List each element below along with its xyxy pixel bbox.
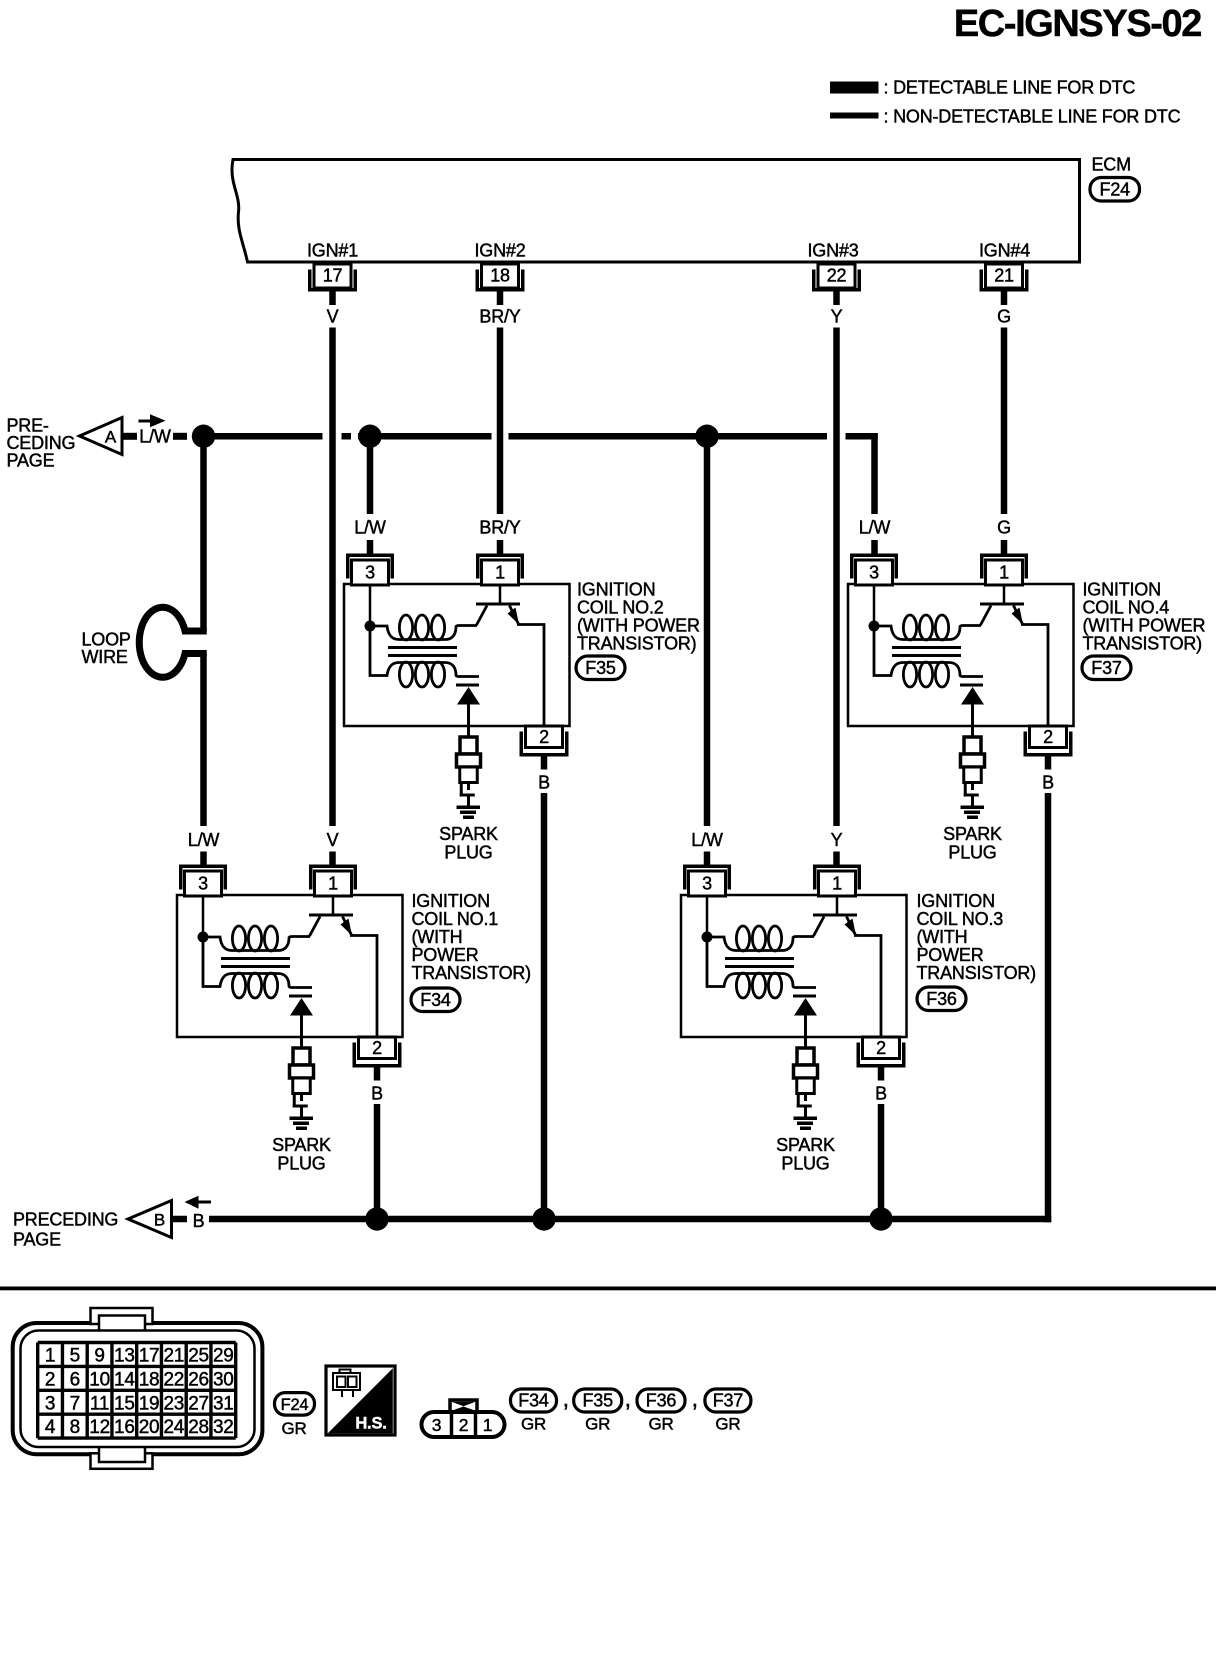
svg-text:PAGE: PAGE — [13, 1230, 61, 1250]
svg-text:3: 3 — [365, 563, 375, 583]
svg-text:B: B — [371, 1084, 383, 1104]
svg-text:(WITH: (WITH — [917, 927, 968, 947]
svg-text:1: 1 — [483, 1415, 493, 1435]
svg-text:L/W: L/W — [354, 518, 386, 538]
stub L/W coil2 — [367, 540, 374, 554]
connector F24 ref — [275, 1393, 315, 1416]
wire B from coil3 pin2 to bus — [878, 1104, 885, 1219]
stub from triangle B — [172, 1216, 188, 1223]
ECM connector ref F24 — [1090, 178, 1140, 202]
svg-text:16: 16 — [114, 1417, 135, 1438]
svg-text:IGNITION: IGNITION — [412, 891, 490, 911]
secondary winding — [203, 942, 312, 998]
ECM pin 18 connector — [476, 264, 525, 305]
L/W bus segment 2 (dash) — [342, 433, 352, 440]
svg-text:PLUG: PLUG — [277, 1154, 325, 1174]
svg-text:6: 6 — [70, 1369, 80, 1390]
svg-text:3: 3 — [45, 1393, 55, 1414]
svg-text:15: 15 — [114, 1393, 135, 1414]
junction dot B3 — [869, 1207, 892, 1230]
secondary winding — [370, 631, 479, 687]
svg-text:IGN#4: IGN#4 — [979, 241, 1030, 261]
svg-text:H.S.: H.S. — [355, 1415, 386, 1433]
svg-text:,: , — [625, 1386, 631, 1413]
page connector triangle A — [80, 418, 123, 455]
coil 2 internal wiring: pin3 lead and junction — [365, 584, 376, 632]
svg-text:PLUG: PLUG — [444, 843, 492, 863]
svg-text:5: 5 — [70, 1345, 80, 1366]
svg-text:12: 12 — [89, 1417, 110, 1438]
svg-text:POWER: POWER — [412, 945, 479, 965]
ECM pin 22 connector — [812, 264, 861, 305]
svg-text:B: B — [193, 1211, 205, 1231]
L/W bus segment 3 — [509, 433, 828, 440]
coil 3 power transistor — [813, 895, 881, 1037]
svg-text:GR: GR — [715, 1415, 740, 1434]
svg-text:: NON-DETECTABLE LINE FOR DTC: : NON-DETECTABLE LINE FOR DTC — [884, 107, 1181, 127]
direction arrow (right) — [139, 414, 166, 427]
svg-text:,: , — [692, 1386, 698, 1413]
coil 1 secondary spark gap — [289, 995, 313, 1038]
svg-text:24: 24 — [163, 1417, 184, 1438]
svg-text:18: 18 — [139, 1369, 160, 1390]
B ground bus — [209, 1216, 1051, 1223]
loop wire symbol — [139, 607, 207, 677]
stub L/W coil3 — [704, 852, 711, 865]
svg-text:29: 29 — [213, 1345, 234, 1366]
svg-text:2: 2 — [372, 1038, 382, 1058]
coil 3 pin 2 — [857, 1037, 906, 1081]
svg-text:7: 7 — [70, 1393, 80, 1414]
connector F37 ref — [705, 1389, 751, 1412]
wire L/W to coil no.2 pin 3 — [367, 440, 374, 514]
coil 4 pin 1 — [980, 554, 1028, 586]
svg-text:TRANSISTOR): TRANSISTOR) — [577, 634, 696, 654]
coil 3 internal wiring: pin3 lead and junction — [702, 895, 713, 943]
svg-text:9: 9 — [94, 1345, 104, 1366]
page connector triangle B — [128, 1201, 172, 1238]
svg-text:TRANSISTOR): TRANSISTOR) — [917, 963, 1036, 983]
stub after L/W — [173, 433, 187, 440]
spark plug 3 — [794, 1037, 818, 1130]
wire G from pin 21 down to coil no.4 — [1001, 328, 1008, 515]
ECM pin 17 connector — [308, 264, 357, 305]
stub from triangle A — [122, 433, 137, 440]
svg-text:EC-IGNSYS-02: EC-IGNSYS-02 — [954, 3, 1201, 45]
svg-text:3: 3 — [869, 563, 879, 583]
svg-text:2: 2 — [876, 1038, 886, 1058]
svg-text:IGNITION: IGNITION — [917, 891, 995, 911]
svg-text:32: 32 — [213, 1417, 234, 1438]
svg-text:GR: GR — [281, 1419, 306, 1438]
svg-text:F24: F24 — [281, 1396, 309, 1414]
coil 4 pin 3 — [850, 554, 898, 586]
svg-text:V: V — [327, 830, 339, 850]
svg-text:F34: F34 — [420, 990, 451, 1010]
coil 1 internal wiring: pin3 lead and junction — [198, 895, 209, 943]
primary winding — [208, 926, 310, 951]
svg-text:1: 1 — [328, 874, 338, 894]
connector F34 ref — [511, 1389, 557, 1412]
svg-text:F36: F36 — [646, 1391, 677, 1411]
direction arrow (left) — [185, 1196, 212, 1209]
wire L/W down to loop wire (coil no.1) — [200, 440, 207, 631]
svg-text:1: 1 — [495, 563, 505, 583]
primary winding — [712, 926, 814, 951]
secondary winding — [874, 631, 983, 687]
ignition coil no.2 block outline — [344, 584, 570, 726]
svg-text:4: 4 — [45, 1417, 56, 1438]
L/W bus segment 4 — [846, 433, 878, 440]
H.S. view logo — [326, 1366, 395, 1435]
primary winding — [375, 615, 477, 640]
svg-text:GR: GR — [585, 1415, 610, 1434]
svg-text:PAGE: PAGE — [7, 451, 55, 471]
svg-text:10: 10 — [89, 1369, 110, 1390]
svg-text:21: 21 — [994, 266, 1014, 286]
svg-text:17: 17 — [139, 1345, 160, 1366]
ECM box — [232, 160, 1080, 263]
stub Y coil3 — [833, 852, 840, 865]
svg-text:F35: F35 — [585, 658, 616, 678]
coil 3 pin 1 — [813, 865, 861, 897]
ignition coil no.3 block outline — [681, 895, 907, 1037]
coil 1 label text — [412, 891, 531, 983]
svg-text:27: 27 — [188, 1393, 209, 1414]
svg-text:30: 30 — [213, 1369, 234, 1390]
svg-text:2: 2 — [459, 1415, 469, 1435]
coil 1 connector ref F34 — [411, 988, 460, 1012]
svg-text:25: 25 — [188, 1345, 209, 1366]
svg-text:PLUG: PLUG — [781, 1154, 829, 1174]
svg-text:B: B — [875, 1084, 887, 1104]
svg-text:COIL NO.3: COIL NO.3 — [917, 909, 1004, 929]
svg-text:L/W: L/W — [691, 830, 723, 850]
svg-text:2: 2 — [539, 727, 549, 747]
svg-text:F36: F36 — [926, 989, 957, 1009]
coil 2 pin 3 — [346, 554, 394, 586]
svg-text:22: 22 — [827, 266, 847, 286]
svg-text:B: B — [538, 773, 550, 793]
svg-text:(WITH: (WITH — [412, 927, 463, 947]
svg-text:GR: GR — [648, 1415, 673, 1434]
wire Y from pin 22 down to coil no.3 — [833, 328, 840, 827]
svg-text:L/W: L/W — [139, 427, 171, 447]
junction dot A1 — [192, 425, 215, 448]
spark plug 2 — [457, 726, 481, 819]
svg-text:F24: F24 — [1100, 179, 1131, 199]
connector F36 ref — [637, 1389, 685, 1412]
coil 3-pin connector face — [422, 1400, 505, 1437]
svg-text:COIL NO.2: COIL NO.2 — [577, 598, 664, 618]
coil 3 pin 3 — [683, 865, 731, 897]
section separator line — [0, 1287, 1216, 1291]
junction dot A2 — [358, 425, 381, 448]
coil 2 pin 1 — [476, 554, 524, 586]
svg-text:3: 3 — [198, 874, 208, 894]
ECM 32-pin connector face — [13, 1308, 263, 1469]
legend: detectable line bar — [830, 82, 879, 94]
svg-text:BR/Y: BR/Y — [479, 307, 520, 327]
wire L/W below loop down to coil no.1 pin 3 — [200, 654, 207, 827]
svg-text:G: G — [997, 518, 1011, 538]
svg-text:18: 18 — [490, 266, 510, 286]
coil 1 pin 1 — [309, 865, 357, 897]
svg-text:3: 3 — [702, 874, 712, 894]
coil 2 secondary spark gap — [456, 684, 480, 727]
coil 4 power transistor — [980, 584, 1048, 726]
L/W bus segment 2 — [358, 433, 492, 440]
svg-text:COIL NO.1: COIL NO.1 — [412, 909, 499, 929]
stub L/W coil1 — [200, 852, 207, 865]
ECM pin 21 connector — [980, 264, 1029, 305]
svg-text:G: G — [997, 307, 1011, 327]
svg-text:1: 1 — [999, 563, 1009, 583]
coil 3 secondary spark gap — [793, 995, 817, 1038]
svg-text:SPARK: SPARK — [776, 1135, 835, 1155]
spark plug 1 — [290, 1037, 314, 1130]
legend: non-detectable line bar — [830, 113, 879, 119]
coil 4 pin 2 — [1024, 726, 1073, 770]
wire L/W to coil3 pin3 from bus — [704, 440, 711, 826]
svg-text:TRANSISTOR): TRANSISTOR) — [412, 963, 531, 983]
stub V coil1 — [329, 852, 336, 865]
svg-text:B: B — [154, 1211, 165, 1230]
svg-text:20: 20 — [139, 1417, 160, 1438]
svg-text:17: 17 — [323, 266, 343, 286]
coil 1 pin 3 — [179, 865, 227, 897]
svg-text:F34: F34 — [518, 1391, 549, 1411]
svg-text:IGNITION: IGNITION — [577, 580, 655, 600]
svg-text:L/W: L/W — [859, 518, 891, 538]
ignition coil no.4 block outline — [848, 584, 1074, 726]
primary winding — [879, 615, 981, 640]
coil 3 label text — [917, 891, 1036, 983]
svg-text:14: 14 — [114, 1369, 135, 1390]
coil 3 connector ref F36 — [917, 987, 966, 1011]
stub L/W coil4 — [871, 540, 878, 554]
svg-text:IGN#2: IGN#2 — [474, 241, 525, 261]
coil 4 connector ref F37 — [1082, 656, 1131, 680]
svg-text:PLUG: PLUG — [948, 843, 996, 863]
svg-text:3: 3 — [432, 1415, 442, 1435]
svg-text:22: 22 — [163, 1369, 184, 1390]
connector F35 ref — [574, 1389, 622, 1412]
svg-text:IGN#3: IGN#3 — [807, 241, 858, 261]
svg-text:Y: Y — [831, 307, 843, 327]
coil 1 pin 2 — [353, 1037, 402, 1081]
wire BR/Y from pin 18 down to coil no.2 — [497, 328, 504, 515]
transformer core — [892, 646, 961, 657]
junction dot B1 — [365, 1207, 388, 1230]
svg-text:11: 11 — [90, 1393, 109, 1414]
svg-text:(WITH POWER: (WITH POWER — [577, 616, 700, 636]
svg-text:1: 1 — [45, 1345, 55, 1366]
stub G coil4 — [1001, 540, 1008, 554]
svg-text:23: 23 — [163, 1393, 184, 1414]
svg-text:PRECEDING: PRECEDING — [13, 1210, 118, 1230]
svg-text:SPARK: SPARK — [943, 824, 1002, 844]
svg-text:F35: F35 — [582, 1391, 613, 1411]
svg-text:BR/Y: BR/Y — [479, 518, 520, 538]
svg-text:COIL NO.4: COIL NO.4 — [1083, 598, 1170, 618]
wire B from coil2 pin2 to ground bus — [541, 793, 548, 1222]
svg-text:WIRE: WIRE — [82, 647, 128, 667]
svg-text:F37: F37 — [1091, 658, 1122, 678]
stub BR/Y coil2 — [497, 540, 504, 554]
svg-text:19: 19 — [139, 1393, 160, 1414]
svg-text:B: B — [1042, 773, 1054, 793]
svg-text:GR: GR — [521, 1415, 546, 1434]
junction dot A3 — [695, 425, 718, 448]
transformer core — [388, 646, 457, 657]
ignition coil no.1 block outline — [177, 895, 403, 1037]
wire L/W corner down to coil no.4 pin 3 — [871, 433, 878, 514]
spark plug 4 — [961, 726, 985, 819]
svg-text:TRANSISTOR): TRANSISTOR) — [1083, 634, 1202, 654]
wire V from pin 17 down to coil no.1 — [329, 328, 336, 827]
wire B from coil4 pin2 to ground bus corner — [1045, 793, 1052, 1222]
svg-text:28: 28 — [188, 1417, 209, 1438]
coil 4 secondary spark gap — [960, 684, 984, 727]
svg-text:(WITH POWER: (WITH POWER — [1083, 616, 1206, 636]
coil 2 connector ref F35 — [576, 656, 625, 680]
svg-text:31: 31 — [213, 1393, 234, 1414]
coil 4 label text — [1083, 580, 1206, 654]
transformer core — [221, 957, 290, 968]
secondary winding — [707, 942, 816, 998]
coil 2 label text — [577, 580, 700, 654]
svg-text:SPARK: SPARK — [272, 1135, 331, 1155]
svg-text:V: V — [327, 307, 339, 327]
svg-text:,: , — [563, 1386, 569, 1413]
svg-text:A: A — [105, 428, 117, 447]
svg-text:ECM: ECM — [1092, 155, 1131, 175]
svg-text:21: 21 — [163, 1345, 184, 1366]
junction dot B2 — [532, 1207, 555, 1230]
svg-text:: DETECTABLE LINE FOR DTC: : DETECTABLE LINE FOR DTC — [884, 78, 1136, 98]
svg-text:L/W: L/W — [188, 830, 220, 850]
transformer core — [725, 957, 794, 968]
svg-text:F37: F37 — [713, 1391, 744, 1411]
coil 2 power transistor — [476, 584, 544, 726]
L/W bus segment 1 — [204, 433, 323, 440]
svg-text:1: 1 — [832, 874, 842, 894]
coil 1 power transistor — [309, 895, 377, 1037]
coil 4 internal wiring: pin3 lead and junction — [869, 584, 880, 632]
svg-text:2: 2 — [45, 1369, 55, 1390]
svg-text:Y: Y — [831, 830, 843, 850]
svg-text:IGN#1: IGN#1 — [307, 241, 358, 261]
svg-text:8: 8 — [70, 1417, 80, 1438]
svg-text:SPARK: SPARK — [439, 824, 498, 844]
svg-text:13: 13 — [114, 1345, 135, 1366]
svg-text:POWER: POWER — [917, 945, 984, 965]
svg-text:2: 2 — [1043, 727, 1053, 747]
svg-text:IGNITION: IGNITION — [1083, 580, 1161, 600]
svg-text:26: 26 — [188, 1369, 209, 1390]
coil 2 pin 2 — [520, 726, 569, 770]
wire B from coil1 pin2 to bus — [374, 1104, 381, 1219]
